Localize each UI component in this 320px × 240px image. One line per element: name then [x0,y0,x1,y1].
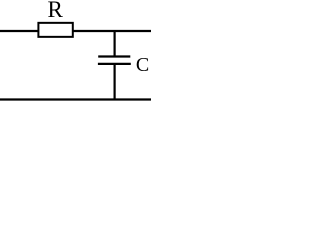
svg-text:C: C [136,54,149,76]
svg-text:R: R [48,0,64,22]
